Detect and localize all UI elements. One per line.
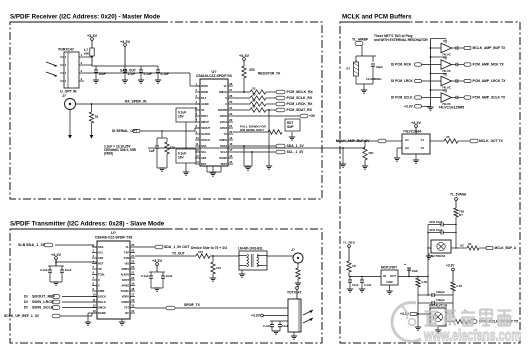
svg-text:21: 21 xyxy=(131,271,135,275)
svg-text:RST: RST xyxy=(98,262,104,266)
svg-text:14: 14 xyxy=(196,160,200,164)
svg-text:A2: A2 xyxy=(405,146,409,150)
svg-text:EMPH: EMPH xyxy=(219,138,227,142)
svg-text:374: 374 xyxy=(198,250,203,254)
svg-text:4.7K: 4.7K xyxy=(421,280,428,284)
svg-text:11: 11 xyxy=(93,298,96,302)
svg-text:11: 11 xyxy=(196,142,199,146)
svg-text:U_OPT IN: U_OPT IN xyxy=(60,90,77,94)
svg-text:EMPH: EMPH xyxy=(121,267,129,271)
svg-text:0.1uF: 0.1uF xyxy=(263,324,271,328)
svg-text:12.288MHz: 12.288MHz xyxy=(366,77,382,81)
svg-text:74LVC2G34: 74LVC2G34 xyxy=(403,130,421,134)
svg-text:JCD 10pF: JCD 10pF xyxy=(429,228,443,232)
svg-text:+3.3V: +3.3V xyxy=(87,34,98,38)
svg-text:10uF: 10uF xyxy=(412,269,419,273)
svg-text:10uF: 10uF xyxy=(166,274,173,278)
svg-text:0.1uF: 0.1uF xyxy=(144,72,152,76)
svg-text:MCLK_BUF_A: MCLK_BUF_A xyxy=(495,246,517,250)
svg-text:14: 14 xyxy=(131,309,135,313)
svg-text:TX_OUT: TX_OUT xyxy=(172,252,185,256)
svg-text:10uF: 10uF xyxy=(99,72,106,76)
svg-text:RST: RST xyxy=(201,162,207,166)
svg-text:SDA_1_3V: SDA_1_3V xyxy=(26,243,46,247)
svg-text:PCM_AMP_MCK TX: PCM_AMP_MCK TX xyxy=(473,63,505,67)
svg-text:100pF: 100pF xyxy=(436,298,445,302)
svg-text:IN: IN xyxy=(383,274,386,278)
svg-text:A1: A1 xyxy=(405,138,409,142)
svg-text:U: U xyxy=(98,278,100,282)
svg-text:26: 26 xyxy=(229,94,233,98)
svg-text:0.1uF: 0.1uF xyxy=(364,283,372,287)
svg-text:23: 23 xyxy=(229,112,233,116)
svg-text:S/PDIF Transmitter (I2C Addre: S/PDIF Transmitter (I2C Address: 0x28) -… xyxy=(10,221,165,228)
svg-text:22: 22 xyxy=(229,118,233,122)
svg-text:OMCK: OMCK xyxy=(201,120,209,124)
svg-text:VDRV: VDRV xyxy=(122,295,129,299)
svg-text:OMCK: OMCK xyxy=(98,306,106,310)
svg-text:+3V: +3V xyxy=(309,114,316,118)
svg-text:AUDIO: AUDIO xyxy=(121,273,129,277)
svg-text:SDA_1_3V OUT: SDA_1_3V OUT xyxy=(164,245,190,249)
svg-text:RMCK: RMCK xyxy=(219,90,227,94)
svg-text:33: 33 xyxy=(252,104,256,108)
svg-text:600: 600 xyxy=(84,52,89,56)
svg-text:TX: TX xyxy=(224,132,228,136)
svg-text:TXP: TXP xyxy=(124,251,129,255)
svg-text:VD: VD xyxy=(98,267,102,271)
svg-text:U?: U? xyxy=(443,72,447,76)
svg-text:SCL_1_3V: SCL_1_3V xyxy=(287,150,305,154)
svg-text:10: 10 xyxy=(196,136,200,140)
svg-text:SN74LVC1G: SN74LVC1G xyxy=(429,304,448,308)
svg-text:PCM_LRCK_RX: PCM_LRCK_RX xyxy=(287,102,314,106)
svg-text:2: 2 xyxy=(81,61,83,65)
svg-text:47uF: 47uF xyxy=(128,72,135,76)
svg-text:+: + xyxy=(404,263,406,267)
svg-text:24: 24 xyxy=(131,254,135,258)
svg-text:21: 21 xyxy=(229,124,233,128)
svg-text:18: 18 xyxy=(131,287,135,291)
svg-text:10uF: 10uF xyxy=(65,268,72,272)
svg-text:DI: DI xyxy=(24,295,28,299)
svg-text:TL_MABF: TL_MABF xyxy=(352,38,368,42)
svg-text:23: 23 xyxy=(131,260,135,264)
svg-text:20: 20 xyxy=(131,276,135,280)
svg-text:SPDIF_TX: SPDIF_TX xyxy=(184,303,201,307)
svg-text:17: 17 xyxy=(131,293,135,297)
svg-text:C: C xyxy=(225,102,227,106)
svg-text:H/S: H/S xyxy=(125,262,130,266)
svg-text:SDIN_SCLK: SDIN_SCLK xyxy=(32,306,54,310)
svg-text:PCM_SDAT_RX: PCM_SDAT_RX xyxy=(287,108,313,112)
svg-text:PCM_AMP_LRCK TX: PCM_AMP_LRCK TX xyxy=(473,79,507,83)
svg-text:TL_REG: TL_REG xyxy=(343,241,356,245)
svg-text:75: 75 xyxy=(95,115,99,119)
svg-text:26: 26 xyxy=(131,243,135,247)
svg-text:19: 19 xyxy=(229,136,233,140)
svg-text:U?: U? xyxy=(443,89,447,93)
svg-text:25: 25 xyxy=(131,249,135,253)
svg-text:SLB: SLB xyxy=(18,243,26,247)
svg-text:GPO1: GPO1 xyxy=(220,120,228,124)
svg-text:47K: 47K xyxy=(368,151,374,155)
svg-text:OSCLK: OSCLK xyxy=(201,138,210,142)
svg-text:APMS: APMS xyxy=(121,284,129,288)
svg-text:SDIN_LRCK: SDIN_LRCK xyxy=(32,300,54,304)
svg-text:47K: 47K xyxy=(249,68,256,72)
svg-text:VL: VL xyxy=(224,84,228,88)
svg-text:PCM_AMP_SCLK TX: PCM_AMP_SCLK TX xyxy=(473,96,507,100)
svg-text:22pF: 22pF xyxy=(376,65,383,69)
svg-text:4: 4 xyxy=(81,77,83,81)
svg-text:0.1uF: 0.1uF xyxy=(40,268,48,272)
svg-text:RESISTOR_TK: RESISTOR_TK xyxy=(258,72,281,76)
svg-text:TOTX147: TOTX147 xyxy=(287,291,302,295)
svg-text:SCLK_UP_REF_1_3V: SCLK_UP_REF_1_3V xyxy=(4,314,40,318)
svg-text:110: 110 xyxy=(216,266,221,270)
svg-text:CS8406-CZZ-SPDIF TX8: CS8406-CZZ-SPDIF TX8 xyxy=(95,236,133,240)
svg-text:SCL2: SCL2 xyxy=(220,150,227,154)
svg-text:SDA2: SDA2 xyxy=(220,144,228,148)
svg-text:J?: J? xyxy=(62,94,66,98)
svg-text:3: 3 xyxy=(81,69,83,73)
svg-text:+3.3V: +3.3V xyxy=(239,54,250,58)
svg-text:LM-NP-1001-B1L: LM-NP-1001-B1L xyxy=(238,247,263,251)
svg-text:OUT: OUT xyxy=(390,274,396,278)
svg-text:SDOUT: SDOUT xyxy=(201,126,211,130)
svg-text:18: 18 xyxy=(229,142,233,146)
svg-text:100pF: 100pF xyxy=(436,290,445,294)
svg-text:16V: 16V xyxy=(178,115,185,119)
svg-text:ISCLK: ISCLK xyxy=(98,300,106,304)
svg-text:S/PDIF Receiver (I2C Address:: S/PDIF Receiver (I2C Address: 0x20) - Ma… xyxy=(10,14,161,21)
svg-text:GND: GND xyxy=(386,280,392,284)
svg-text:0.1uF: 0.1uF xyxy=(161,72,169,76)
svg-text:Y?: Y? xyxy=(346,67,350,71)
svg-text:+3.3V: +3.3V xyxy=(152,259,163,263)
svg-text:13: 13 xyxy=(196,154,200,158)
svg-text:RX_SPDIF_IN: RX_SPDIF_IN xyxy=(125,100,147,104)
svg-text:PCM_MCLK_RX: PCM_MCLK_RX xyxy=(287,90,314,94)
svg-text:C: C xyxy=(98,284,100,288)
svg-text:22: 22 xyxy=(131,265,135,269)
svg-text:NVERR: NVERR xyxy=(218,108,227,112)
svg-text:SUP: SUP xyxy=(287,125,294,129)
svg-text:Y2: Y2 xyxy=(420,146,424,150)
svg-text:15: 15 xyxy=(131,304,135,308)
svg-text:SCL: SCL xyxy=(98,251,104,255)
svg-text:10uF: 10uF xyxy=(352,283,359,287)
svg-text:U?: U? xyxy=(111,231,117,235)
svg-text:1uF: 1uF xyxy=(149,149,155,153)
svg-text:SDIN: SDIN xyxy=(98,289,104,293)
svg-text:TCBL: TCBL xyxy=(98,273,105,277)
svg-text:ILRCK: ILRCK xyxy=(98,295,106,299)
svg-text:16V: 16V xyxy=(178,156,185,160)
svg-text:15: 15 xyxy=(229,160,233,164)
svg-text:TEST: TEST xyxy=(220,162,227,166)
svg-text:TXOFF: TXOFF xyxy=(120,289,129,293)
svg-text:33: 33 xyxy=(468,242,472,246)
svg-text:DGND: DGND xyxy=(98,311,106,315)
svg-text:U?: U? xyxy=(443,56,447,60)
svg-text:J?: J? xyxy=(291,248,295,252)
svg-text:+3.3V: +3.3V xyxy=(446,264,455,268)
svg-text:NC: NC xyxy=(125,311,129,315)
svg-text:VL: VL xyxy=(126,245,130,249)
svg-text:GPO2: GPO2 xyxy=(220,126,228,130)
svg-text:Y1: Y1 xyxy=(420,138,424,142)
svg-text:AD0: AD0 xyxy=(201,156,207,160)
svg-text:+3.3V: +3.3V xyxy=(411,121,422,125)
svg-text:DI: DI xyxy=(24,300,28,304)
svg-text:RXN0: RXN0 xyxy=(201,90,209,94)
svg-text:RXP1: RXP1 xyxy=(201,114,208,118)
svg-text:20: 20 xyxy=(229,130,233,134)
svg-text:4.7K: 4.7K xyxy=(456,284,463,288)
svg-text:RXP0: RXP0 xyxy=(201,84,208,88)
svg-text:TL_5VANA: TL_5VANA xyxy=(450,192,467,196)
svg-text:SCL: SCL xyxy=(201,150,207,154)
svg-text:DGND: DGND xyxy=(219,156,227,160)
svg-text:U?: U? xyxy=(443,39,447,43)
svg-text:DI PCM_LRCK: DI PCM_LRCK xyxy=(391,79,413,83)
svg-text:DI PCM_SCLK: DI PCM_SCLK xyxy=(391,96,413,100)
svg-text:HW MODE ONLY: HW MODE ONLY xyxy=(240,128,264,132)
svg-text:1: 1 xyxy=(81,53,83,57)
svg-text:MCLK and PCM Buffers: MCLK and PCM Buffers xyxy=(342,14,412,21)
svg-text:SAB_OUT: SAB_OUT xyxy=(120,69,136,73)
svg-text:GPO0: GPO0 xyxy=(220,114,228,118)
svg-text:MCLK_OUT TX: MCLK_OUT TX xyxy=(479,139,503,143)
svg-text:and WITH EXTERNAL RESONATOR: and WITH EXTERNAL RESONATOR xyxy=(374,38,428,42)
svg-text:TORX147: TORX147 xyxy=(58,48,74,52)
svg-text:SDA: SDA xyxy=(98,245,104,249)
svg-text:AD0: AD0 xyxy=(98,256,104,260)
svg-text:17: 17 xyxy=(229,148,233,152)
svg-text:33: 33 xyxy=(446,135,450,139)
svg-text:JCD 10pF: JCD 10pF xyxy=(429,220,443,224)
svg-text:DI PCM_MCK: DI PCM_MCK xyxy=(391,63,412,67)
svg-text:GNDD: GNDD xyxy=(121,300,129,304)
svg-text:NC7WZ04: NC7WZ04 xyxy=(431,254,446,258)
svg-text:VA: VA xyxy=(201,108,205,112)
svg-text:U: U xyxy=(225,96,227,100)
svg-text:10: 10 xyxy=(93,293,97,297)
svg-text:MCLK_AMP_BUF TX: MCLK_AMP_BUF TX xyxy=(473,46,507,50)
svg-text:12: 12 xyxy=(196,148,200,152)
svg-text:33: 33 xyxy=(252,86,256,90)
svg-text:OLRCK: OLRCK xyxy=(201,132,210,136)
svg-text:33: 33 xyxy=(252,98,256,102)
svg-text:+3.3V: +3.3V xyxy=(251,314,261,318)
svg-text:CS8416-CZZ-SPDIF RX: CS8416-CZZ-SPDIF RX xyxy=(196,74,233,78)
svg-text:SDA: SDA xyxy=(201,144,207,148)
svg-text:Device Side to 75 + 3/4: Device Side to 75 + 3/4 xyxy=(191,246,227,250)
svg-text:(0603): (0603) xyxy=(104,152,113,156)
svg-text:FILT: FILT xyxy=(201,96,207,100)
svg-text:+3.3V: +3.3V xyxy=(51,253,62,257)
svg-text:25: 25 xyxy=(229,100,233,104)
svg-text:74LVC1G125M5: 74LVC1G125M5 xyxy=(439,106,465,110)
svg-text:TST: TST xyxy=(124,306,129,310)
svg-text:DI: DI xyxy=(24,306,28,310)
svg-text:33: 33 xyxy=(252,92,256,96)
svg-text:PCM_SCLK_RX: PCM_SCLK_RX xyxy=(287,96,313,100)
svg-text:16: 16 xyxy=(131,298,135,302)
svg-text:R?: R? xyxy=(459,213,463,217)
svg-text:12: 12 xyxy=(93,304,97,308)
svg-text:16: 16 xyxy=(229,154,233,158)
svg-text:TXN: TXN xyxy=(124,256,129,260)
svg-text:MCP1700T: MCP1700T xyxy=(381,266,397,270)
svg-text:10uF: 10uF xyxy=(282,324,289,328)
svg-text:24: 24 xyxy=(229,106,233,110)
svg-text:0.1uF: 0.1uF xyxy=(141,274,149,278)
svg-text:www.elecfans.com: www.elecfans.com xyxy=(423,328,521,345)
svg-text:28: 28 xyxy=(229,82,233,86)
svg-text:+3.3V: +3.3V xyxy=(120,40,131,44)
svg-text:SFMT: SFMT xyxy=(122,278,130,282)
svg-text:27: 27 xyxy=(229,88,233,92)
svg-text:SDA_1_3V: SDA_1_3V xyxy=(287,144,305,148)
svg-text:13: 13 xyxy=(93,309,97,313)
svg-text:19: 19 xyxy=(131,282,135,286)
svg-text:AGND: AGND xyxy=(201,102,209,106)
svg-text:+3.3V: +3.3V xyxy=(404,105,414,109)
